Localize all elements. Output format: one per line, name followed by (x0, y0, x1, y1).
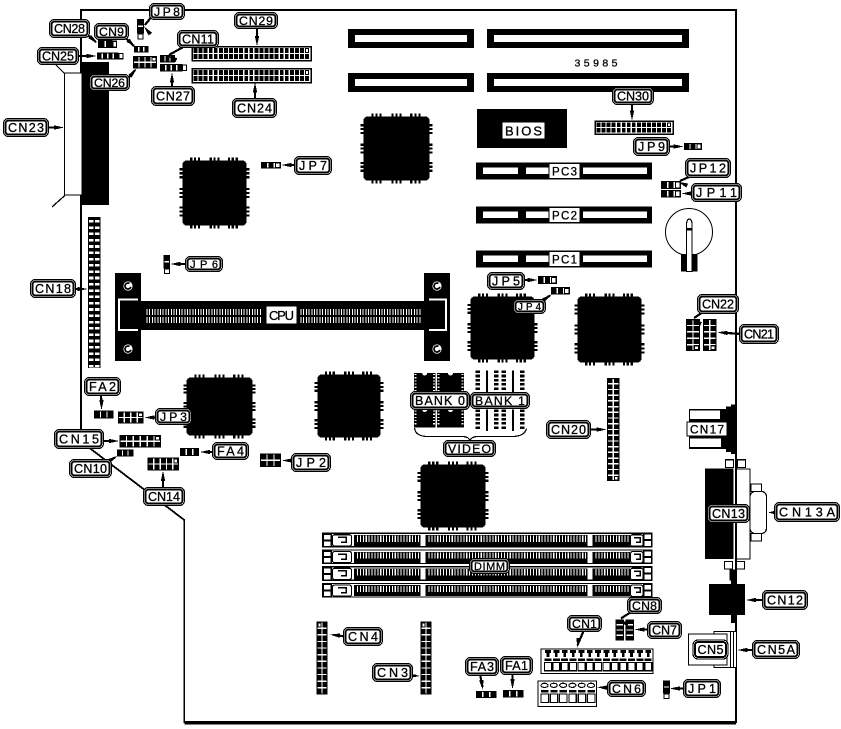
svg-text:DIMM: DIMM (474, 561, 505, 573)
leader CN18 (74, 288, 84, 290)
svg-text:CN13A: CN13A (779, 506, 836, 520)
leader FA1 (511, 675, 513, 686)
leader FA4 (204, 451, 214, 453)
connector CN28 (98, 40, 113, 48)
chip U7 video (422, 466, 484, 526)
connector JP12 (661, 181, 681, 189)
label PC1 (549, 252, 580, 267)
label BANK0 (411, 392, 470, 410)
svg-text:JP7: JP7 (299, 159, 327, 173)
svg-text:FA2: FA2 (89, 380, 116, 394)
svg-text:CN12: CN12 (767, 594, 803, 608)
ISA slot 2 (487, 29, 689, 48)
svg-text:CN29: CN29 (239, 14, 273, 28)
chip U3 (188, 379, 251, 434)
svg-text:CN26: CN26 (94, 76, 125, 90)
leader CN6 (601, 686, 609, 689)
label CN1 (568, 616, 602, 632)
svg-text:CN24: CN24 (237, 102, 272, 116)
label JP5 (488, 273, 525, 290)
label CN14 (144, 488, 185, 506)
label CN26 (90, 75, 130, 91)
connector CN15 (120, 435, 162, 448)
label CN25 (38, 48, 79, 65)
label BIOS (502, 122, 545, 139)
svg-text:PC1: PC1 (552, 254, 577, 266)
connector CN4 (317, 622, 328, 695)
connector CN20 (607, 378, 620, 481)
PC2 slot (476, 207, 652, 224)
svg-text:CN7: CN7 (652, 624, 677, 638)
svg-text:CN25: CN25 (42, 50, 74, 64)
svg-text:BANK 0: BANK 0 (415, 394, 465, 408)
leader CN7 (638, 628, 649, 630)
svg-text:CN21: CN21 (744, 328, 774, 342)
label CN21 (740, 325, 779, 344)
connector CN9 (134, 46, 149, 53)
DIMM slot 2 (323, 550, 653, 564)
battery (666, 209, 713, 256)
DIMM slot 1 (323, 533, 653, 547)
label FA2 (85, 378, 121, 396)
svg-text:CN27: CN27 (156, 90, 190, 104)
svg-text:CN6: CN6 (612, 682, 641, 696)
svg-text:CN14: CN14 (148, 490, 180, 504)
label JP12 (686, 159, 731, 178)
leader CN28 (86, 34, 96, 42)
connector CN27 (160, 64, 183, 72)
svg-text:CN4: CN4 (348, 630, 378, 644)
leader CN24 (254, 86, 256, 99)
label CN5 (693, 640, 728, 659)
leader CN22 (694, 312, 703, 318)
connector FA1 (503, 690, 524, 698)
svg-text:CN30: CN30 (617, 90, 649, 104)
label VIDEO (444, 441, 496, 457)
svg-text:FA3: FA3 (470, 660, 494, 674)
leader CN30 (631, 103, 633, 117)
connector CN3 (421, 622, 432, 695)
label CN3 (373, 664, 413, 682)
connector CN18 header (88, 217, 101, 368)
svg-text:JP2: JP2 (296, 456, 326, 470)
leader CN29 (256, 26, 258, 42)
leader CN14 (162, 474, 164, 489)
connector CN10 (117, 450, 134, 457)
board outline (81, 10, 736, 722)
svg-text:JP5: JP5 (492, 275, 520, 289)
svg-text:PC2: PC2 (552, 210, 577, 222)
label CN18 (31, 280, 76, 298)
label CN22 (698, 295, 739, 314)
connector JP11 (661, 190, 681, 198)
label PC3 (549, 164, 580, 179)
label BANK1 (471, 393, 530, 409)
chip U4 (319, 376, 379, 436)
label CN8 (628, 598, 662, 614)
connector CN30 header (595, 121, 673, 134)
label CN9 (95, 24, 129, 40)
svg-text:BIOS: BIOS (505, 123, 542, 138)
label CN12 (763, 591, 808, 610)
leader CN8 (621, 612, 631, 619)
label PC2 (549, 208, 580, 223)
CN23 bracket (65, 73, 83, 195)
connector CN26 (133, 56, 157, 69)
BANK0 sockets upper (414, 373, 436, 394)
connector JP5 (538, 276, 557, 284)
leader JP1 (673, 687, 685, 689)
leader CN23 (47, 126, 60, 128)
label JP3 (156, 409, 192, 425)
svg-text:CN11: CN11 (182, 33, 214, 47)
connector JP1 (663, 681, 670, 694)
label CN13 (708, 505, 750, 523)
label JP11 (692, 184, 742, 202)
BANK0 sockets lower (414, 410, 436, 428)
leader CN20 (589, 428, 602, 430)
connector CN14 (148, 458, 180, 471)
svg-text:PC3: PC3 (552, 166, 577, 178)
svg-text:CN1: CN1 (572, 617, 597, 631)
connector JP4 (551, 287, 570, 295)
connector CN6 (538, 681, 597, 707)
leader CN11 (169, 46, 185, 55)
chip U1 (184, 162, 245, 224)
svg-text:JP6: JP6 (190, 259, 218, 271)
DIMM slot 3 (323, 567, 653, 581)
BIOS chip (477, 109, 567, 148)
svg-text:CPU: CPU (269, 308, 294, 323)
svg-text:JP8: JP8 (154, 5, 180, 19)
chip U2 (365, 118, 428, 179)
connector FA2 (94, 411, 114, 419)
label JP6 (186, 257, 223, 272)
leader CN21 (721, 333, 741, 335)
leader CN13A (772, 511, 777, 513)
leader CN9 (125, 38, 134, 47)
chip U6 (579, 298, 640, 361)
connector CN8 (616, 620, 625, 641)
connector CN12 port (731, 577, 737, 585)
ISA slot 3 (348, 73, 474, 92)
video brace (415, 428, 527, 441)
leader JP6 (174, 263, 187, 265)
svg-text:CN23: CN23 (8, 121, 44, 135)
svg-text:CN20: CN20 (551, 423, 586, 437)
label CN20 (547, 421, 591, 439)
svg-text:CN5A: CN5A (757, 643, 796, 657)
label JP4 (514, 300, 546, 314)
BANK1 sockets upper (476, 371, 481, 374)
connector JP9 (684, 143, 702, 150)
leader JP8 (145, 16, 152, 25)
leader JP2 (286, 459, 293, 461)
connector CN22 (686, 319, 700, 351)
svg-text:JP9: JP9 (638, 140, 665, 154)
svg-text:CN15: CN15 (59, 433, 99, 447)
leader JP3 (148, 416, 157, 418)
label JP9 (634, 138, 670, 156)
label CN10 (70, 460, 112, 478)
label CN6 (608, 681, 646, 697)
leader CN1 (578, 630, 585, 645)
label CN4 (344, 628, 383, 646)
svg-text:CN3: CN3 (377, 666, 408, 680)
label FA4 (213, 443, 249, 460)
svg-text:CN10: CN10 (74, 462, 107, 476)
leader CN15 (102, 440, 115, 442)
label FA3 (466, 658, 499, 676)
label DIMM (470, 559, 510, 574)
svg-text:CN17: CN17 (690, 422, 724, 436)
label JP7 (295, 157, 332, 175)
label CN28 (50, 20, 90, 38)
connector CN17 (689, 405, 736, 455)
leader CN27 (171, 76, 173, 88)
leader CN10 (109, 458, 115, 462)
connector CN29 header (192, 47, 311, 61)
leader JP7 (285, 164, 295, 166)
svg-text:CN8: CN8 (632, 599, 657, 613)
svg-text:JP4: JP4 (518, 302, 542, 313)
label CN24 (233, 99, 277, 118)
BANK1 sockets lower (476, 410, 481, 413)
leader JP4 (543, 296, 550, 301)
label CN15 (55, 430, 104, 449)
connector JP8 (137, 19, 144, 34)
svg-text:JP1: JP1 (688, 682, 716, 696)
label CN17 (687, 422, 727, 436)
leader CN3 (410, 674, 416, 676)
svg-text:JP3: JP3 (160, 410, 187, 424)
leader JP11 (685, 192, 693, 194)
label CN30 (613, 88, 654, 105)
connector CN7 (626, 620, 635, 641)
label JP1 (684, 680, 721, 698)
svg-text:CN18: CN18 (35, 282, 71, 296)
leader CN26 (128, 70, 135, 79)
svg-text:CN28: CN28 (54, 22, 85, 36)
label CPU (266, 306, 297, 324)
PC1 slot (476, 251, 652, 268)
connector CN24 header (192, 69, 311, 83)
leader JP12 (680, 177, 690, 182)
leader CN12 (750, 599, 764, 601)
svg-text:CN5: CN5 (698, 643, 724, 657)
connector CN25 (97, 53, 119, 60)
connector FA4 (180, 448, 199, 456)
connector JP7 (261, 162, 281, 169)
leader CN5A (741, 649, 754, 651)
label CN7 (648, 622, 682, 639)
PC3 slot (476, 163, 652, 180)
connector CN23 edge (82, 62, 109, 205)
label JP2 (292, 454, 331, 472)
connector FA3 (476, 691, 497, 698)
label CN29 (235, 13, 278, 29)
connector JP3 (118, 412, 144, 424)
leader JP5 (523, 279, 534, 281)
CPU slot assembly (115, 273, 141, 361)
label CN13A (775, 503, 840, 522)
DIMM slot 4 (323, 583, 653, 597)
leader FA3 (480, 674, 483, 687)
label CN27 (152, 87, 195, 106)
leader CN25 (77, 55, 92, 57)
connector JP6 (164, 255, 171, 269)
svg-text:FA1: FA1 (505, 659, 528, 673)
connector CN21 (703, 319, 717, 351)
chip U5 (472, 298, 533, 358)
svg-text:CN22: CN22 (702, 298, 734, 312)
ISA slot 1 (348, 29, 474, 48)
connector CN5 port (714, 632, 737, 668)
label FA1 (501, 657, 533, 675)
connector CN1 (541, 649, 653, 674)
leader JP9 (668, 145, 680, 147)
svg-text:CN9: CN9 (99, 25, 124, 39)
label JP8 (150, 4, 185, 20)
connector CN11 (160, 55, 175, 63)
svg-text:VIDEO: VIDEO (448, 442, 491, 456)
leader FA2 (100, 394, 103, 406)
connector JP2 (260, 454, 281, 468)
leader CN4 (334, 635, 345, 637)
svg-text:CN13: CN13 (712, 507, 745, 521)
label CN23 (4, 119, 49, 137)
ISA slot 4 (487, 73, 689, 92)
connector CN13 port (726, 460, 734, 468)
label CN11 (178, 31, 219, 48)
label CN5A (753, 641, 800, 659)
svg-text:BANK 1: BANK 1 (475, 394, 525, 408)
svg-text:FA4: FA4 (217, 445, 244, 459)
